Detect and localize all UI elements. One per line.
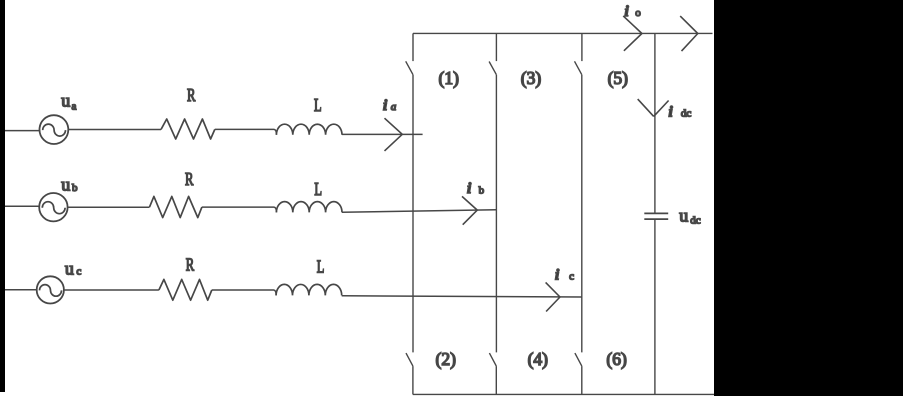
- bridge leg 3 middle conductor: [581, 75, 583, 353]
- svg-text:a: a: [391, 101, 397, 113]
- resistor R phase b: [150, 196, 202, 217]
- sine symbol inside ub: [42, 202, 65, 214]
- second output arrow on top rail: [680, 16, 698, 51]
- bottom DC rail: [413, 393, 714, 395]
- wire: resistor to inductor L (phase c): [212, 290, 276, 295]
- sine symbol inside ua: [43, 124, 66, 136]
- wire: ua to resistor R (phase a): [68, 129, 161, 131]
- svg-text:R: R: [187, 85, 195, 105]
- bridge leg 1 upper lead: [412, 33, 414, 61]
- svg-text:(3): (3): [521, 68, 542, 88]
- wire: ub to resistor R (phase b): [68, 206, 150, 208]
- bridge leg 1 lower lead: [412, 366, 414, 394]
- svg-text:L: L: [314, 179, 322, 199]
- sine symbol inside uc: [40, 285, 62, 297]
- svg-text:R: R: [186, 255, 194, 275]
- svg-text:o: o: [635, 7, 641, 19]
- svg-text:c: c: [76, 266, 81, 278]
- current arrow idc: [638, 99, 669, 116]
- resistor R phase c: [159, 279, 212, 300]
- wire: inductor to bridge leg 3 (phase c): [342, 296, 582, 297]
- switch (3) blade: [489, 62, 496, 75]
- svg-text:(4): (4): [528, 349, 549, 369]
- svg-text:(5): (5): [608, 68, 629, 88]
- capacitor Cdc top plate: [644, 212, 668, 214]
- right black margin: [714, 0, 903, 396]
- bridge leg 3 upper lead: [581, 33, 583, 61]
- svg-text:b: b: [479, 185, 485, 197]
- svg-text:c: c: [569, 271, 574, 283]
- capacitor Cdc bottom plate: [644, 218, 668, 220]
- current arrow ia: [385, 118, 403, 151]
- switch (5) blade: [575, 61, 582, 74]
- source ua (AC source circle): [40, 115, 69, 144]
- wire: inductor to bridge leg 1 (phase a): [342, 133, 423, 135]
- svg-text:(2): (2): [436, 349, 457, 369]
- inductor L phase b: [276, 202, 342, 213]
- inductor L phase c: [276, 284, 342, 295]
- left bus bar (black strip): [0, 0, 5, 392]
- source ub (AC source circle): [39, 193, 67, 221]
- wire: phase a from left bus to source ua: [5, 130, 40, 132]
- switch (2) blade: [406, 353, 413, 366]
- switch (1) blade: [406, 61, 413, 74]
- dc link conductor upper (top rail to capacitor): [654, 34, 656, 214]
- inductor L phase a: [276, 124, 342, 135]
- bridge leg 1 middle conductor: [412, 75, 414, 353]
- wire: resistor to inductor L (phase a): [215, 129, 277, 134]
- bridge leg 2 upper lead: [495, 33, 497, 61]
- wire: phase c from left bus to source uc: [5, 289, 37, 291]
- top DC rail: [413, 32, 713, 34]
- output current arrow io on top rail: [623, 16, 642, 51]
- dc link conductor lower (capacitor to bottom rail): [654, 219, 656, 394]
- svg-text:dc: dc: [690, 214, 701, 226]
- current arrow ib: [462, 196, 477, 224]
- wire: uc to resistor R (phase c): [64, 289, 159, 291]
- svg-text:(6): (6): [606, 349, 627, 369]
- switch (6) blade: [575, 353, 582, 366]
- svg-text:L: L: [314, 95, 322, 115]
- bridge leg 3 lower lead: [581, 366, 583, 394]
- svg-text:u: u: [65, 259, 74, 279]
- bridge leg 2 middle conductor: [495, 75, 497, 353]
- svg-text:b: b: [72, 182, 78, 194]
- svg-text:u: u: [61, 91, 70, 111]
- source uc (AC source circle): [37, 276, 64, 303]
- svg-text:u: u: [61, 175, 70, 195]
- current arrow ic: [546, 282, 560, 311]
- svg-text:(1): (1): [439, 68, 460, 88]
- svg-text:a: a: [72, 101, 77, 113]
- svg-text:R: R: [185, 169, 193, 189]
- svg-text:L: L: [317, 257, 325, 277]
- wire: inductor to bridge leg 2 (phase b): [342, 210, 496, 212]
- svg-text:dc: dc: [681, 107, 692, 119]
- bridge leg 2 lower lead: [495, 366, 497, 394]
- wire: phase b from left bus to source ub: [5, 205, 39, 207]
- wire: resistor to inductor L (phase b): [202, 207, 277, 212]
- resistor R phase a: [161, 119, 215, 139]
- svg-text:u: u: [679, 206, 688, 226]
- switch (4) blade: [489, 353, 496, 366]
